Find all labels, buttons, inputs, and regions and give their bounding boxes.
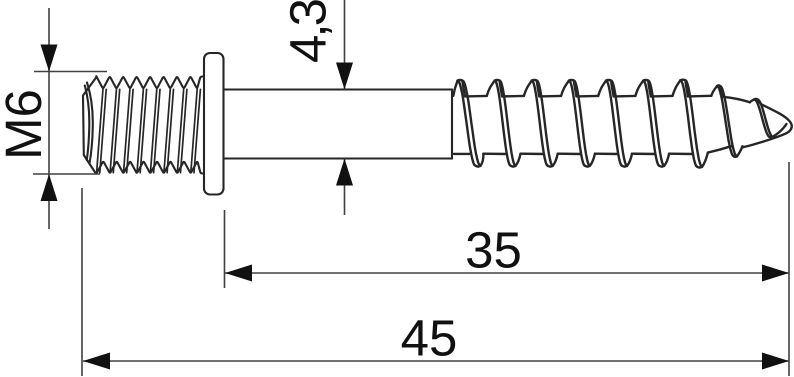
taper top edge [723, 97, 750, 103]
wood screw thread turn 5 [598, 80, 655, 167]
dimension M6 arrow up [41, 174, 58, 201]
shank [224, 90, 453, 159]
dimension 4,3 line upper [344, 0, 346, 90]
wood screw thread turn 4 [561, 80, 618, 167]
dimension M6 extension line bottom [33, 173, 100, 175]
dimension M6 arrow down [41, 45, 58, 72]
dimension 4,3 arrow down [336, 63, 353, 90]
dimension 35 arrow left [225, 265, 252, 282]
svg-text:M6: M6 [0, 89, 52, 160]
dimension 4,3 arrow up [336, 159, 353, 186]
svg-text:35: 35 [465, 222, 522, 279]
machine thread M6 [83, 76, 205, 173]
dimension 4,3 line lower [344, 159, 346, 216]
wood screw thread turn 9 (small, near tip) [750, 99, 787, 138]
dimension 45 line [83, 360, 789, 362]
dimension 45 arrow right [762, 353, 789, 370]
wood screw thread turn 8 (taper) [711, 85, 742, 156]
extension line from screw end [81, 188, 83, 376]
machine thread flank lines [97, 89, 201, 173]
dimension 45 arrow left [83, 353, 110, 370]
dimension 35 arrow right [762, 265, 789, 282]
svg-text:45: 45 [401, 310, 458, 367]
wood screw root at shank junction [454, 153, 470, 155]
collar flange [204, 53, 224, 195]
wood screw thread turn 3 [524, 80, 581, 167]
svg-text:4,3: 4,3 [280, 0, 337, 63]
wood screw thread turn 2 [487, 80, 544, 167]
wood screw thread turn 7 [673, 80, 712, 168]
extension line from collar [224, 210, 226, 288]
dimension M6 line [48, 8, 50, 229]
dimension 35 line [225, 272, 789, 274]
wood screw thread turn 1 [453, 80, 506, 167]
nose tip outline [708, 104, 792, 152]
extension line right [788, 162, 790, 376]
wood screw thread turn 6 [635, 80, 692, 167]
dimension M6 extension line top [34, 71, 107, 73]
